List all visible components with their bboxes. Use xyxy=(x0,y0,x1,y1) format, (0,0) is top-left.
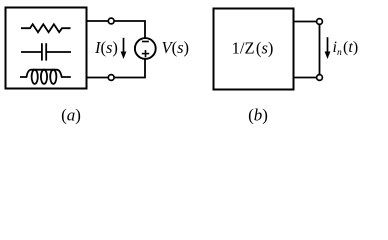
inductor xyxy=(20,70,71,84)
svg-text:1/Z (s): 1/Z (s) xyxy=(232,38,274,57)
wire vertical (b) xyxy=(319,25,321,75)
wire bottom (b) xyxy=(294,77,317,79)
svg-text:(b): (b) xyxy=(248,106,268,125)
terminal bottom (a) xyxy=(108,75,114,81)
svg-text:I(s): I(s) xyxy=(94,38,118,57)
current arrow I(s) xyxy=(121,38,127,59)
terminal top (b) xyxy=(317,19,323,25)
current arrow i_n(t) xyxy=(325,37,331,59)
wire top (a) xyxy=(87,21,146,38)
minus sign xyxy=(142,41,149,43)
terminal bottom (b) xyxy=(317,75,323,81)
box (a) network xyxy=(6,8,87,89)
plus sign xyxy=(142,50,149,57)
resistor xyxy=(21,24,71,32)
svg-text:in (t): in (t) xyxy=(333,39,359,58)
box (b) 1/Z(s) xyxy=(214,9,294,90)
terminal top (a) xyxy=(108,18,114,24)
wire top (b) xyxy=(294,21,317,23)
svg-text:V(s): V(s) xyxy=(162,38,190,57)
wire bottom (a) xyxy=(87,59,146,78)
capacitor xyxy=(21,43,71,60)
svg-text:(a): (a) xyxy=(61,106,81,125)
source V(s) circle U1 xyxy=(135,38,156,59)
